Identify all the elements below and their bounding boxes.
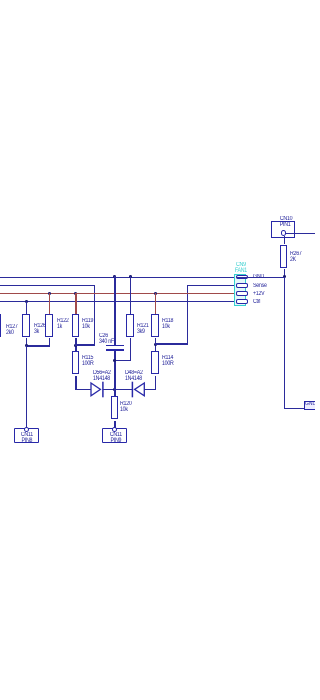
wire R120 bottom to CN11 PIN9 [114, 421, 115, 428]
wire D48 anode to R114 net [144, 389, 156, 390]
wire C26 net to R120 top [114, 388, 115, 396]
wire R115 to D56 anode [75, 389, 90, 390]
connector CN11 PIN8 box [14, 428, 40, 443]
pin circle CN10 PIN1 [281, 230, 287, 236]
resistor R114 [151, 351, 158, 374]
capacitor C26 bottom plate [106, 349, 124, 351]
label R114 value [162, 355, 174, 367]
resistor R127 [0, 314, 1, 337]
resistor R121 [126, 314, 133, 337]
node junction GND to R121 [129, 275, 132, 278]
wire D56 cathode to center node [103, 389, 132, 390]
wire R121 bottom [130, 338, 131, 361]
wire R115 bottom [75, 376, 76, 390]
wire Sense bus right segment [187, 285, 236, 286]
wire R119 junction to sense vertical [75, 344, 95, 345]
connector CN11 PIN9 box [102, 428, 128, 443]
wire R118 bottom [155, 338, 156, 352]
connector CN10 PIN1 box [271, 221, 295, 238]
pin FAN1 pin2 [236, 283, 248, 287]
label R122 value [57, 318, 69, 330]
wire Ctrl bus [0, 301, 236, 302]
resistor R119 [72, 314, 79, 337]
node junction +12V to R118 [154, 292, 157, 295]
resistor R120 [111, 396, 118, 419]
node junction R119 R115 sense [74, 344, 77, 347]
wire down to CN11 PIN8 [26, 345, 27, 428]
label D56 [93, 370, 111, 382]
net label GND text bottom right [305, 402, 316, 407]
pin FAN1 pin3 [236, 291, 248, 295]
wire R122 bottom [49, 338, 50, 347]
label CN11 PIN8 [21, 432, 33, 444]
wire C26 top vertical [114, 276, 115, 346]
label R121 value [137, 323, 149, 335]
node junction C26 R121 [113, 359, 116, 362]
wire R126 top [26, 301, 27, 314]
label R267 value [290, 251, 302, 263]
diode D48 [130, 381, 147, 398]
label R115 value [82, 355, 94, 367]
pin FAN1 pin4 [236, 299, 248, 303]
wire bottom horizontal to GND label [284, 408, 315, 409]
wire R118 junction to sense vertical [155, 343, 188, 344]
diode D56 [88, 381, 105, 398]
net label box GND bottom right [304, 401, 320, 410]
wire Sense left vertical drop [94, 285, 95, 346]
resistor R126 [22, 314, 29, 337]
wire Sense bus left segment [0, 285, 95, 286]
net label Ctrl [253, 299, 260, 305]
label R118 value [162, 318, 173, 330]
wire +12V red bus [0, 293, 236, 294]
wire GND over label [237, 277, 285, 278]
pin circle CN11 PIN8 [24, 427, 29, 432]
resistor R115 [72, 351, 79, 374]
wire R267 bottom long vertical [284, 269, 285, 410]
wire R126 bottom [26, 338, 27, 347]
node junction +12V to R119 [74, 292, 77, 295]
pin circle CN11 PIN9 [112, 427, 117, 432]
net label +12V [253, 291, 264, 297]
wire R122 to R126 horizontal [26, 345, 50, 346]
connector CN9 FAN1 box [234, 274, 246, 306]
label D48 [125, 370, 143, 382]
wire CN10 pin to right edge [284, 233, 315, 234]
node junction GND R267 [283, 275, 286, 278]
resistor R118 [151, 314, 158, 337]
label CN10 [280, 216, 292, 222]
wire R122 top red [49, 293, 50, 314]
wire R119 top red [75, 293, 76, 314]
node junction GND to C26 [113, 275, 116, 278]
label R127 value [6, 324, 18, 336]
resistor R122 [45, 314, 52, 337]
node junction R126 R122 [25, 344, 28, 347]
wire R114 bottom [155, 376, 156, 390]
connector CN9 FAN1 label [235, 262, 247, 274]
label C26 value [99, 333, 114, 345]
wire R119 bottom [75, 338, 76, 352]
node junction R118 R114 sense [154, 343, 157, 346]
wire R121 top vertical [130, 276, 131, 314]
net label Sense [253, 283, 267, 289]
label R119 value [82, 318, 93, 330]
pin FAN1 pin1 [236, 275, 248, 279]
wire C26 bottom vertical [114, 351, 115, 397]
label R120 value [120, 401, 132, 413]
label PIN1 [279, 222, 290, 228]
label CN11 PIN9 [109, 432, 121, 444]
node junction +12V to R122 [48, 292, 51, 295]
wire R121 bottom horizontal to C26 net [114, 360, 131, 361]
label R126 value [34, 323, 46, 335]
node junction Ctrl to R126 [25, 300, 28, 303]
wire R118 top red [155, 293, 156, 314]
wire GND bus horizontal [0, 277, 285, 278]
wire CN10 to R267 [284, 236, 285, 245]
resistor R267 [280, 245, 287, 268]
net label GND [253, 274, 264, 280]
capacitor C26 top plate [106, 345, 124, 347]
wire Sense right vertical drop [187, 285, 188, 345]
node junction diodes R120 C26 [113, 388, 116, 391]
